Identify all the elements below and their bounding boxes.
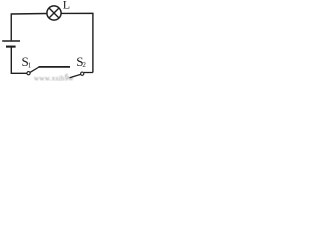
wire: bottom-right corner to switch S2 contact	[84, 72, 93, 74]
svg-text:2: 2	[82, 61, 86, 69]
wire: top run from left corner to lamp	[11, 14, 47, 41]
wire: raised middle run between switch blades	[39, 66, 70, 68]
switch S2 blade (open, hanging down-left)	[70, 74, 81, 77]
svg-text:5: 5	[65, 72, 69, 81]
wire: S1 contact to bottom-left corner and up to battery	[11, 47, 27, 73]
wire: lamp to top-right corner and down right side	[61, 13, 93, 72]
switch S2 pivot circle	[81, 72, 84, 75]
faint watermark remnant at bottom	[34, 72, 74, 83]
switch S1 pivot circle	[27, 72, 30, 75]
battery short plate (-)	[6, 46, 16, 48]
switch S1 blade (open, tilted up-right)	[30, 67, 39, 73]
lamp L (circle with X)	[47, 6, 61, 20]
svg-text:L: L	[63, 0, 70, 12]
battery long plate (+)	[2, 40, 20, 42]
svg-text:1: 1	[28, 61, 32, 69]
